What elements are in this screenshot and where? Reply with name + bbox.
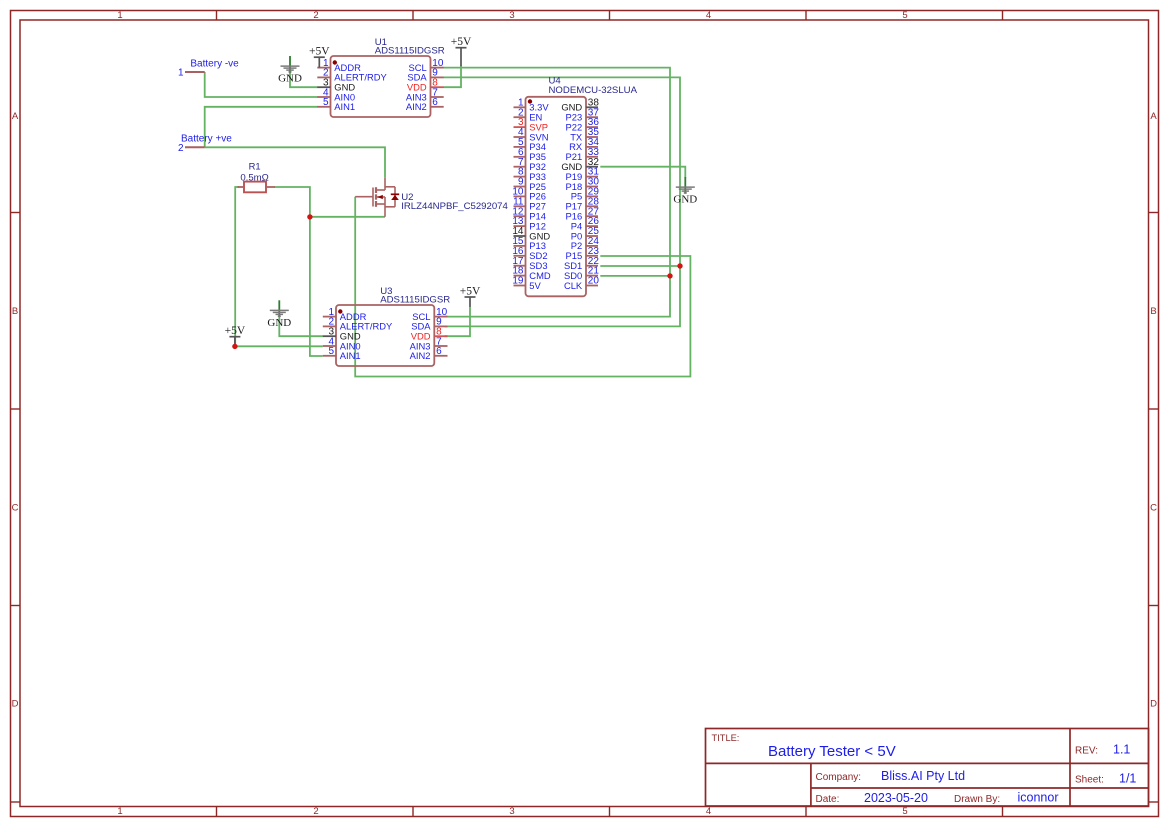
svg-text:AIN1: AIN1 (340, 350, 361, 361)
svg-text:1: 1 (178, 67, 184, 78)
svg-text:6: 6 (432, 97, 438, 108)
svg-text:+5V: +5V (460, 285, 481, 297)
svg-text:C: C (12, 503, 19, 514)
svg-text:REV:: REV: (1075, 746, 1098, 757)
svg-text:Date:: Date: (816, 794, 840, 805)
svg-text:5V: 5V (529, 280, 541, 291)
svg-text:ADS1115IDGSR: ADS1115IDGSR (380, 295, 450, 306)
svg-text:CLK: CLK (564, 280, 583, 291)
svg-text:AIN2: AIN2 (406, 101, 427, 112)
svg-text:IRLZ44NPBF_C5292074: IRLZ44NPBF_C5292074 (401, 201, 508, 212)
svg-text:C: C (1150, 503, 1157, 514)
svg-text:D: D (1150, 699, 1157, 710)
svg-text:iconnor: iconnor (1018, 791, 1059, 805)
svg-text:1/1: 1/1 (1119, 772, 1136, 786)
svg-text:GND: GND (267, 317, 291, 329)
svg-text:GND: GND (673, 194, 697, 206)
svg-text:Drawn By:: Drawn By: (954, 794, 1000, 805)
svg-text:Sheet:: Sheet: (1075, 775, 1104, 786)
svg-text:GND: GND (278, 73, 302, 85)
svg-text:A: A (12, 111, 19, 122)
svg-text:4: 4 (706, 806, 711, 817)
svg-text:2023-05-20: 2023-05-20 (864, 791, 928, 805)
svg-text:ADS1115IDGSR: ADS1115IDGSR (375, 46, 445, 57)
svg-text:Battery Tester < 5V: Battery Tester < 5V (768, 743, 896, 760)
svg-text:1: 1 (117, 10, 122, 21)
svg-text:4: 4 (706, 10, 711, 21)
svg-text:+5V: +5V (451, 36, 472, 48)
svg-text:Battery -ve: Battery -ve (190, 58, 239, 69)
svg-text:AIN2: AIN2 (410, 350, 431, 361)
svg-text:Battery +ve: Battery +ve (181, 134, 232, 145)
svg-text:R1: R1 (249, 161, 261, 172)
svg-text:5: 5 (323, 97, 329, 108)
svg-text:B: B (1150, 306, 1156, 317)
svg-text:2: 2 (313, 806, 318, 817)
svg-text:+5V: +5V (309, 46, 330, 58)
svg-text:D: D (12, 699, 19, 710)
svg-text:19: 19 (512, 276, 524, 287)
svg-text:AIN1: AIN1 (334, 101, 355, 112)
svg-text:5: 5 (902, 10, 907, 21)
svg-text:3: 3 (509, 806, 514, 817)
svg-text:A: A (1150, 111, 1157, 122)
svg-text:B: B (12, 306, 18, 317)
svg-text:3: 3 (509, 10, 514, 21)
svg-text:Company:: Company: (816, 772, 862, 783)
svg-text:TITLE:: TITLE: (712, 733, 740, 743)
svg-text:5: 5 (328, 346, 334, 357)
svg-text:6: 6 (436, 346, 442, 357)
svg-text:1.1: 1.1 (1113, 743, 1130, 757)
svg-text:0.5mΩ: 0.5mΩ (240, 172, 269, 183)
svg-text:2: 2 (313, 10, 318, 21)
svg-text:NODEMCU-32SLUA: NODEMCU-32SLUA (549, 85, 638, 96)
svg-text:1: 1 (117, 806, 122, 817)
svg-text:Bliss.AI Pty Ltd: Bliss.AI Pty Ltd (881, 769, 965, 783)
svg-text:20: 20 (588, 276, 600, 287)
svg-text:5: 5 (902, 806, 907, 817)
svg-text:+5V: +5V (225, 325, 246, 337)
